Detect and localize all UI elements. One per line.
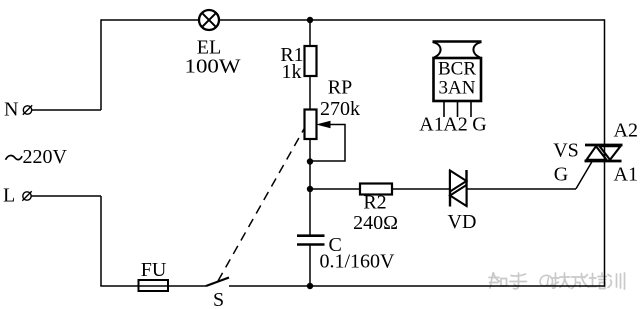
svg-text:3AN: 3AN xyxy=(439,78,476,99)
pin A2 of package xyxy=(457,101,459,117)
svg-text:RP: RP xyxy=(328,77,352,99)
glyph pei xyxy=(589,273,607,289)
wire N terminal horizontal xyxy=(32,109,102,111)
wire R1 to RP xyxy=(309,76,311,110)
watermark zhihu xyxy=(489,273,625,289)
svg-text:FU: FU xyxy=(141,259,167,281)
resistor R1 xyxy=(305,46,317,76)
glyph xun xyxy=(608,273,625,289)
wire diac to gate corner xyxy=(467,188,577,190)
svg-text:S: S xyxy=(213,289,224,309)
wire bottom rail left segment xyxy=(100,285,206,287)
node R2 branch junction xyxy=(307,186,313,192)
svg-text:A2: A2 xyxy=(443,114,467,136)
glyph at xyxy=(540,275,552,286)
node wiper junction xyxy=(307,158,313,164)
svg-text:240Ω: 240Ω xyxy=(353,212,398,234)
glyph ji xyxy=(552,273,570,288)
terminal L xyxy=(22,191,31,200)
node capacitor bottom junction xyxy=(307,283,313,289)
mechanical linkage dashed line xyxy=(218,125,307,282)
svg-text:G: G xyxy=(472,114,486,136)
fuse FU xyxy=(139,280,169,291)
svg-text:270k: 270k xyxy=(320,98,360,120)
svg-text:G: G xyxy=(554,164,568,186)
wire R2 to diac xyxy=(392,188,450,190)
wire RP wiper feedback xyxy=(310,125,345,162)
svg-text:BCR: BCR xyxy=(438,59,476,80)
resistor R2 xyxy=(360,184,392,195)
svg-text:VS: VS xyxy=(553,140,579,162)
svg-text:0.1/160V: 0.1/160V xyxy=(320,251,396,273)
wire RP to capacitor xyxy=(309,139,311,236)
svg-text:N: N xyxy=(4,99,18,121)
svg-text:R2: R2 xyxy=(363,192,386,214)
wire top rail right segment xyxy=(220,19,605,21)
glyph cheng xyxy=(572,274,589,289)
wire center branch top xyxy=(309,20,311,46)
svg-text:A1: A1 xyxy=(614,164,638,186)
wire right vertical xyxy=(604,19,606,286)
diac VD xyxy=(450,170,467,207)
wire R2 branch left xyxy=(310,188,360,190)
BCR package U1 xyxy=(433,42,482,102)
label 220V supply xyxy=(6,146,68,168)
wire left upper vertical xyxy=(100,19,102,110)
svg-text:A2: A2 xyxy=(614,120,638,142)
pin A1 of package xyxy=(443,101,445,117)
pin G of package xyxy=(470,101,472,117)
svg-text:1k: 1k xyxy=(282,61,302,83)
wire L terminal horizontal xyxy=(32,195,102,197)
svg-text:220V: 220V xyxy=(23,146,68,168)
potentiometer RP xyxy=(305,110,331,140)
wire left lower vertical xyxy=(100,196,102,286)
triac VS xyxy=(585,145,623,161)
glyph zhi xyxy=(489,273,507,288)
glyph hu xyxy=(510,273,527,289)
capacitor C xyxy=(297,236,325,245)
switch S lever xyxy=(206,278,229,287)
wire gate diagonal xyxy=(576,161,593,189)
svg-text:A1: A1 xyxy=(419,114,443,136)
wire bottom rail right segment xyxy=(229,285,605,287)
lamp EL xyxy=(199,10,219,30)
node junction top xyxy=(307,17,313,23)
svg-text:VD: VD xyxy=(448,211,477,233)
wire capacitor to bottom rail xyxy=(309,245,311,287)
wire top rail left segment xyxy=(101,19,199,21)
svg-text:100W: 100W xyxy=(185,56,241,78)
terminal N xyxy=(23,105,32,114)
svg-text:L: L xyxy=(3,185,15,207)
